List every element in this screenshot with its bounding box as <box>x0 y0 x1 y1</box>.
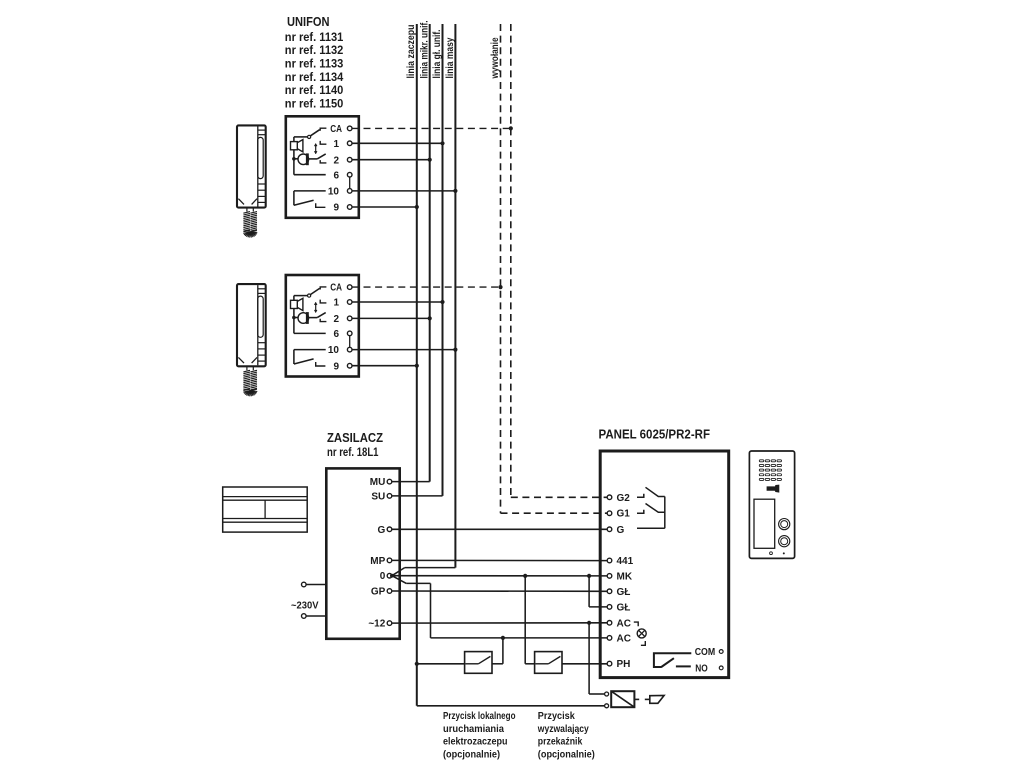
svg-text:wywołanie: wywołanie <box>490 37 501 79</box>
svg-text:GP: GP <box>371 587 386 598</box>
svg-text:linia mikr. unif.: linia mikr. unif. <box>419 20 430 78</box>
svg-text:(opcjonalnie): (opcjonalnie) <box>443 748 500 760</box>
svg-text:0: 0 <box>380 571 386 582</box>
svg-text:1: 1 <box>333 139 339 150</box>
svg-text:nr ref. 1133: nr ref. 1133 <box>285 57 344 71</box>
svg-text:nr ref. 1134: nr ref. 1134 <box>285 70 344 84</box>
svg-text:9: 9 <box>333 361 339 372</box>
svg-text:CA: CA <box>330 124 342 135</box>
svg-text:ZASILACZ: ZASILACZ <box>327 431 383 445</box>
svg-text:nr ref. 1150: nr ref. 1150 <box>285 97 344 111</box>
svg-text:CA: CA <box>330 283 342 294</box>
svg-text:elektrozaczepu: elektrozaczepu <box>443 736 508 748</box>
svg-text:2: 2 <box>333 155 339 166</box>
svg-text:AC: AC <box>617 618 631 629</box>
svg-text:linia gł. unif.: linia gł. unif. <box>432 29 443 78</box>
svg-text:SU: SU <box>371 491 385 502</box>
svg-text:~12: ~12 <box>368 619 385 630</box>
svg-text:~230V: ~230V <box>291 599 319 611</box>
svg-text:10: 10 <box>328 187 340 198</box>
svg-text:GŁ: GŁ <box>617 587 631 598</box>
svg-text:MP: MP <box>370 556 385 567</box>
svg-text:nr ref. 18L1: nr ref. 18L1 <box>327 445 379 459</box>
svg-text:Przycisk: Przycisk <box>538 710 575 722</box>
svg-text:1: 1 <box>333 298 339 309</box>
svg-text:uruchamiania: uruchamiania <box>443 723 504 735</box>
svg-text:linia zaczepu: linia zaczepu <box>406 25 417 79</box>
svg-text:G: G <box>378 525 386 536</box>
svg-text:GŁ: GŁ <box>617 602 631 613</box>
svg-text:6: 6 <box>333 329 339 340</box>
svg-text:linia masy: linia masy <box>445 37 456 78</box>
svg-text:9: 9 <box>333 203 339 214</box>
svg-text:AC: AC <box>617 633 631 644</box>
svg-text:Przycisk lokalnego: Przycisk lokalnego <box>443 710 516 722</box>
svg-text:6: 6 <box>333 170 339 181</box>
svg-text:nr ref. 1131: nr ref. 1131 <box>285 30 344 44</box>
svg-text:przekaźnik: przekaźnik <box>538 736 583 748</box>
svg-text:G2: G2 <box>617 493 631 504</box>
svg-text:wyzwalający: wyzwalający <box>537 723 589 735</box>
svg-text:10: 10 <box>328 345 340 356</box>
svg-text:G: G <box>617 525 625 536</box>
svg-text:MU: MU <box>370 477 386 488</box>
svg-text:nr ref. 1140: nr ref. 1140 <box>285 83 344 97</box>
svg-text:PANEL 6025/PR2-RF: PANEL 6025/PR2-RF <box>599 428 711 442</box>
svg-text:PH: PH <box>617 659 631 670</box>
svg-text:MK: MK <box>617 571 633 582</box>
svg-text:G1: G1 <box>617 509 631 520</box>
svg-text:NO: NO <box>695 663 708 674</box>
svg-text:(opcjonalnie): (opcjonalnie) <box>538 748 595 760</box>
svg-text:COM: COM <box>695 647 716 658</box>
svg-text:441: 441 <box>617 556 634 567</box>
svg-text:UNIFON: UNIFON <box>287 14 330 29</box>
svg-text:nr ref. 1132: nr ref. 1132 <box>285 43 344 57</box>
svg-text:2: 2 <box>333 314 339 325</box>
